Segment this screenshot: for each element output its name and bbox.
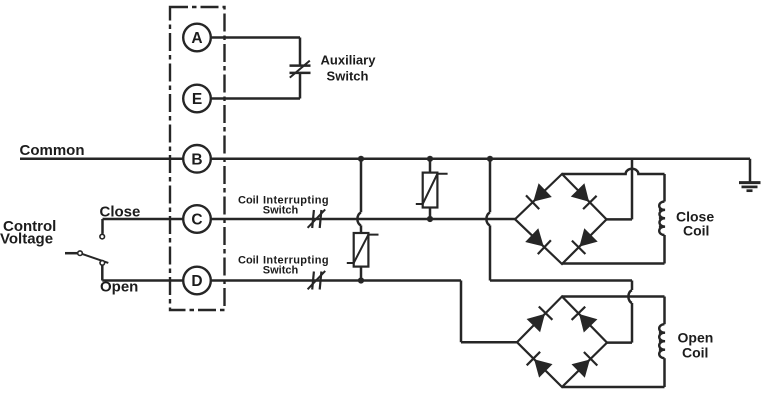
svg-text:Coil: Coil (238, 194, 259, 206)
svg-text:Open: Open (100, 279, 138, 296)
svg-text:Open: Open (678, 330, 714, 346)
svg-text:Voltage: Voltage (0, 231, 53, 248)
svg-text:Coil: Coil (683, 223, 709, 239)
svg-text:Auxiliary: Auxiliary (321, 53, 377, 68)
svg-text:Switch: Switch (263, 205, 299, 217)
svg-text:A: A (191, 30, 202, 47)
svg-text:B: B (191, 151, 202, 168)
svg-text:Coil: Coil (238, 254, 259, 266)
svg-text:C: C (191, 212, 202, 229)
svg-text:Common: Common (20, 142, 85, 159)
svg-text:Close: Close (100, 204, 141, 221)
svg-text:E: E (192, 91, 202, 108)
svg-text:Coil: Coil (682, 345, 708, 361)
svg-text:Switch: Switch (263, 265, 299, 277)
svg-text:Switch: Switch (327, 69, 369, 84)
svg-text:D: D (191, 273, 202, 290)
